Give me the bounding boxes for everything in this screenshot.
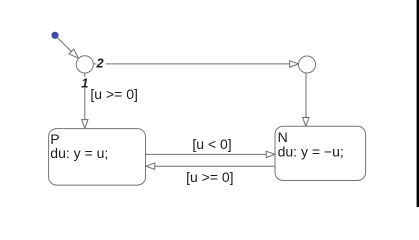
wire N to P [155, 165, 275, 167]
arrowhead into N (P to N transition) [266, 151, 275, 157]
svg-text:[u < 0]: [u < 0] [192, 136, 231, 152]
default transition arrowhead [69, 49, 78, 58]
svg-text:[u >= 0]: [u >= 0] [186, 169, 233, 185]
state P [49, 129, 146, 186]
state N [275, 126, 366, 180]
arrowhead into state P [82, 120, 88, 129]
junction J1 [76, 56, 93, 73]
wire J2 down to state N [305, 73, 307, 118]
arrowhead into P (N to P transition) [146, 163, 155, 169]
arrowhead into state N [303, 118, 309, 127]
wire J1 down to label 1 [84, 73, 86, 77]
svg-text:du: y = −u;: du: y = −u; [278, 144, 344, 160]
wire P to N [146, 153, 267, 155]
default transition wire [58, 38, 72, 52]
wire label 1 down to state P [84, 88, 86, 120]
svg-text:du: y = u;: du: y = u; [50, 145, 108, 161]
junction J2 [299, 56, 316, 73]
wire J1 to label 2 [93, 63, 96, 65]
wire label 2 to J2 [106, 63, 290, 65]
default transition origin dot [51, 32, 58, 39]
arrowhead into J2 [290, 61, 299, 67]
svg-text:[u >= 0]: [u >= 0] [90, 86, 137, 102]
svg-text:2: 2 [96, 56, 104, 71]
right window border [417, 0, 419, 207]
